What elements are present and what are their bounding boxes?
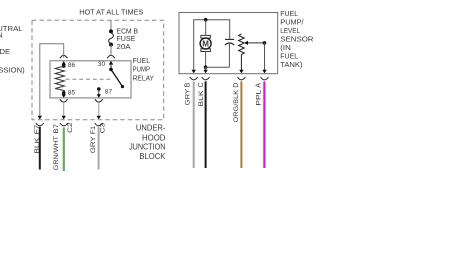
svg-text:C3: C3 [100, 122, 107, 133]
svg-text:N: N [0, 31, 3, 40]
svg-text:UTRAL: UTRAL [0, 24, 22, 33]
svg-text:M: M [202, 39, 209, 48]
svg-text:D: D [233, 83, 240, 88]
svg-text:PPL: PPL [256, 89, 263, 105]
svg-text:87: 87 [105, 89, 113, 96]
svg-text:C2: C2 [67, 122, 74, 133]
svg-text:TANK): TANK) [280, 60, 303, 69]
svg-text:86: 86 [68, 62, 76, 69]
svg-text:HOT AT ALL TIMES: HOT AT ALL TIMES [79, 8, 143, 17]
svg-text:BLK: BLK [34, 137, 41, 154]
svg-text:ECM B: ECM B [116, 29, 138, 36]
svg-text:GRY: GRY [185, 88, 192, 105]
svg-text:UNDER-: UNDER- [136, 124, 166, 133]
svg-text:B7: B7 [53, 123, 60, 133]
svg-text:C: C [198, 82, 205, 87]
svg-text:BLK: BLK [198, 89, 205, 106]
svg-text:BLOCK: BLOCK [139, 152, 166, 161]
svg-text:FUSE: FUSE [116, 36, 135, 43]
svg-text:20A: 20A [116, 44, 131, 51]
svg-text:B: B [185, 82, 192, 87]
svg-text:30: 30 [98, 61, 106, 68]
svg-text:JUNCTION: JUNCTION [129, 143, 166, 152]
svg-text:85: 85 [68, 90, 76, 97]
svg-text:PUMP: PUMP [133, 66, 151, 73]
svg-text:HOOD: HOOD [142, 133, 166, 142]
svg-text:A: A [256, 83, 263, 88]
svg-text:SSION): SSION) [0, 65, 25, 74]
svg-text:GRN/WHT: GRN/WHT [53, 136, 60, 170]
svg-text:FUEL: FUEL [133, 58, 150, 65]
svg-text:DE: DE [0, 47, 10, 56]
svg-text:GRY: GRY [90, 135, 97, 153]
svg-text:F7: F7 [34, 124, 41, 134]
svg-text:ORG/BLK: ORG/BLK [233, 89, 240, 122]
svg-text:F1: F1 [90, 126, 97, 134]
svg-text:RELAY: RELAY [133, 75, 155, 82]
